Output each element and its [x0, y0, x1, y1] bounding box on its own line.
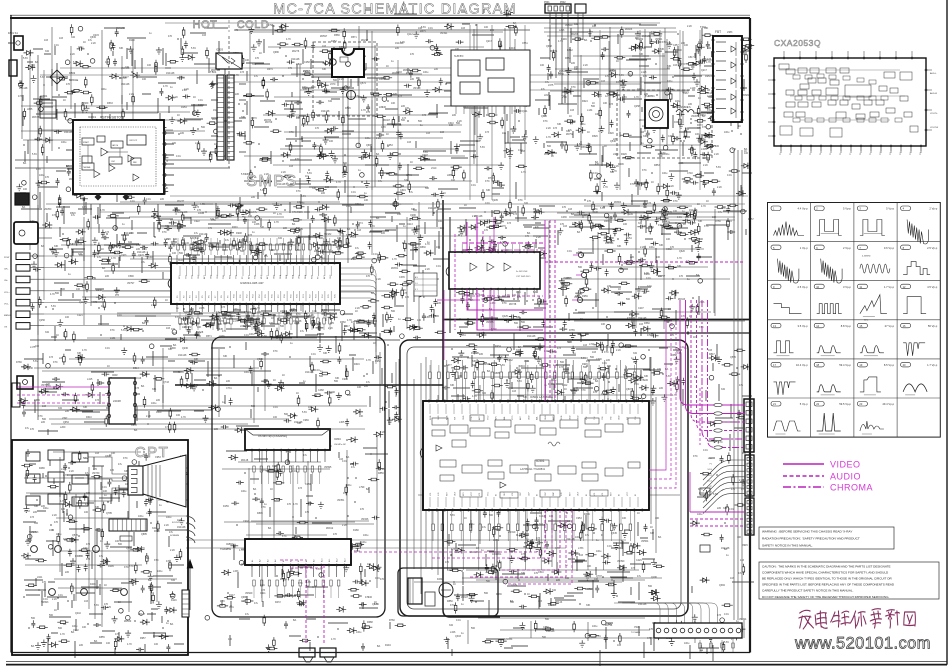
component cluster AV area G [459, 206, 555, 350]
svg-text:P601: P601 [544, 1, 550, 4]
key button switches S01-S07 [16, 253, 30, 260]
svg-text:TDA9859: TDA9859 [220, 547, 232, 551]
svg-text:CPT: CPT [135, 444, 170, 461]
svg-text:FBT: FBT [715, 30, 721, 34]
CPT pin header [109, 519, 147, 531]
svg-text:2.5 Vp-p: 2.5 Vp-p [798, 285, 809, 289]
svg-text:CH-: CH- [4, 280, 8, 282]
bridge diode cross D801-D804 [50, 70, 64, 84]
waveform cell W10 [814, 284, 824, 289]
svg-text:VIN: VIN [610, 416, 612, 420]
svg-text:OSC: OSC [217, 274, 219, 279]
svg-text:KEY: KEY [463, 491, 465, 496]
warning text box [759, 527, 894, 549]
svg-text:DEGAUSSING: DEGAUSSING [672, 106, 688, 109]
right-side connector P903 [745, 498, 754, 535]
svg-text:P401: P401 [634, 626, 640, 629]
svg-text:CIN: CIN [635, 416, 637, 420]
magenta wires to P903 [690, 511, 745, 513]
audio dashed wire y296 below IC201 [462, 295, 543, 297]
svg-text:LF801: LF801 [40, 94, 48, 98]
component cluster left col Q [71, 233, 153, 273]
svg-text:8.8 Vp-p: 8.8 Vp-p [841, 324, 852, 328]
svg-text:CXT 3HP-2KO: CXT 3HP-2KO [516, 276, 531, 278]
svg-text:0 1: 0 1 [415, 289, 418, 291]
waveform cell W3 [857, 206, 867, 211]
svg-text:10.4 Vp-p: 10.4 Vp-p [796, 363, 808, 367]
svg-text:CXA2053Q: CXA2053Q [774, 38, 821, 48]
svg-text:SHD2: SHD2 [707, 492, 713, 494]
resistor groups below micro IC [179, 318, 181, 324]
legend AUDIO [783, 475, 824, 477]
svg-text:VOUT-R: VOUT-R [930, 127, 939, 129]
IC801 STR-S6707 SMPS regulator [73, 120, 164, 194]
svg-text:AUDIO: AUDIO [830, 472, 861, 482]
waveform cell W16 [901, 323, 911, 328]
trunk y385 [175, 384, 443, 386]
main filter capacitor C810 [347, 91, 356, 100]
svg-text:VIN: VIN [586, 416, 588, 420]
ground bus enclosure inner [407, 347, 681, 609]
svg-text:IC01: IC01 [178, 258, 185, 262]
svg-text:KEY: KEY [446, 491, 448, 496]
CPT board outline [12, 440, 188, 655]
svg-text:GND: GND [545, 415, 547, 420]
svg-text:FOCUS: FOCUS [172, 522, 180, 524]
svg-text:P4: P4 [820, 153, 822, 155]
waveform cell W8 [901, 245, 911, 250]
CXA2053Q pin label ticks [780, 148, 782, 151]
wire net C [544, 24, 701, 150]
wire net L [222, 436, 377, 602]
magenta transistors in AV area [578, 252, 583, 257]
heater arrow [187, 560, 193, 568]
magenta bundle into jungle top [545, 400, 550, 401]
CRT socket [128, 466, 143, 495]
video bias transistors row [49, 589, 56, 596]
waveform cell W22 [814, 402, 824, 407]
svg-text:P1: P1 [790, 153, 792, 155]
wire net H [24, 348, 399, 429]
svg-text:TUN: TUN [255, 274, 257, 279]
right-side connector P902 [745, 455, 754, 496]
svg-text:IC804: IC804 [334, 438, 341, 441]
svg-text:RADIATION PRECAUTION', 'SAFETY: RADIATION PRECAUTION', 'SAFETY PRECAUTIO… [762, 537, 860, 541]
magenta feeds from jungle to risers [649, 320, 666, 470]
jungle IC501 main video/chroma/deflection IC [423, 401, 649, 510]
relay dashed section box [313, 42, 377, 116]
waveform cell W15 [857, 323, 867, 328]
wire net EB [38, 202, 419, 338]
magenta vertical bundle x543-557 [544, 220, 546, 400]
svg-text:V.D: V.D [602, 492, 604, 496]
degauss section dashed box [617, 90, 712, 158]
CPT resistor under header [120, 536, 132, 541]
component cluster top tiny P [365, 8, 484, 14]
svg-text:TUN: TUN [223, 274, 225, 279]
svg-text:3 Vp-p: 3 Vp-p [843, 285, 851, 289]
IC802 pin resistor row [253, 580, 255, 586]
svg-text:8.5 Vp-p: 8.5 Vp-p [884, 363, 895, 367]
svg-text:P602: P602 [560, 1, 566, 4]
svg-text:2 Vp-p: 2 Vp-p [843, 246, 851, 250]
svg-text:KEY: KEY [569, 491, 571, 496]
svg-text:P2: P2 [800, 153, 802, 155]
svg-text:KEY: KEY [610, 491, 612, 496]
component cluster left mid H [24, 346, 259, 435]
svg-text:CH+: CH+ [4, 269, 9, 271]
svg-text:OSC: OSC [299, 274, 301, 279]
long rail y23 [165, 22, 660, 24]
svg-text:OSC: OSC [111, 161, 116, 163]
svg-text:VCO: VCO [512, 415, 514, 420]
svg-text:H.D: H.D [561, 492, 563, 496]
svg-text:P5: P5 [830, 153, 832, 155]
resistor row below jungle IC pins [432, 524, 435, 531]
page border top thin line [10, 14, 750, 16]
svg-text:V.D: V.D [512, 492, 514, 496]
CXA2053Q block diagram outline [774, 58, 926, 146]
svg-text:APC: APC [478, 415, 481, 420]
long rail y82 [228, 81, 700, 83]
CXA2053Q internal blocks [779, 64, 789, 69]
svg-text:VDD: VDD [274, 274, 276, 279]
CXA2053Q pins [783, 57, 785, 59]
wire net B [244, 24, 515, 190]
component cluster mid F [369, 202, 452, 339]
HOT/COLD divider dashed line [228, 20, 230, 32]
video solid wire 2 [467, 222, 543, 310]
svg-text:59.5 Vp-p: 59.5 Vp-p [839, 402, 851, 406]
wire net O [468, 618, 744, 644]
verticals top-middle [469, 25, 471, 200]
video drive transistors row [31, 546, 38, 553]
degaussing coil L801 [676, 110, 694, 113]
microcontroller IC01 (GS8334-02B) [171, 263, 340, 304]
left long verticals [37, 55, 39, 420]
component cluster degauss C2 [589, 163, 752, 240]
top center connector P601 [545, 4, 571, 13]
svg-text:SAFETY NOTICE IN THIS MANUAL.: SAFETY NOTICE IN THIS MANUAL. [762, 544, 813, 548]
trunk wire horizontal y320 [443, 319, 750, 321]
component cluster jungle top J [451, 344, 683, 411]
svg-text:5 Vp-p: 5 Vp-p [843, 207, 851, 211]
waveform reference table [768, 203, 941, 438]
svg-text:T401: T401 [700, 25, 706, 29]
svg-text:www.520101.com: www.520101.com [794, 635, 931, 653]
main circuit border bottom [11, 652, 750, 654]
long rail y90 [300, 89, 690, 91]
svg-text:YIN: YIN [594, 416, 596, 420]
page outer border bottom thin [6, 661, 947, 663]
svg-text:WARNING : BEFORE SERVICING THI: WARNING : BEFORE SERVICING THIS CHASSIS … [762, 530, 852, 534]
SMPS transformer T801 [217, 75, 224, 160]
svg-text:IC803: IC803 [216, 48, 223, 52]
svg-text:4.43MHz: 4.43MHz [862, 256, 871, 258]
svg-text:VCC: VCC [627, 491, 629, 496]
svg-text:OVP/OCP: OVP/OCP [129, 140, 138, 142]
waveform cell W2 [814, 206, 824, 211]
svg-text:LATCH: LATCH [112, 144, 119, 147]
FBT flyback transformer T401 [713, 36, 742, 122]
component cluster subboard L [222, 439, 388, 612]
svg-text:YIN: YIN [471, 416, 473, 420]
waveform cell W12 [901, 284, 911, 289]
svg-text:SDA: SDA [285, 274, 288, 279]
svg-text:2.5 Vp-p: 2.5 Vp-p [927, 246, 938, 250]
video buffer IC201 [449, 252, 540, 289]
CRT flare [143, 455, 186, 507]
wire net JM [414, 350, 680, 594]
waveform cell W21 [771, 402, 781, 407]
svg-text:VCO: VCO [487, 415, 489, 420]
svg-text:MC-7CA SCHEMATIC DIAGRAM: MC-7CA SCHEMATIC DIAGRAM [273, 2, 517, 18]
page outer border bottom thick [6, 664, 947, 666]
component cluster fbt east [696, 39, 751, 139]
wire net A [21, 27, 217, 154]
bottom parts near P401 [699, 640, 701, 652]
audio amp IC803 with heatsink [408, 578, 422, 604]
svg-text:SUB B'D: SUB B'D [454, 55, 464, 58]
waveform cell W9 [771, 284, 781, 289]
P902 fan-out wires [703, 460, 745, 480]
svg-text:THR801: THR801 [645, 94, 655, 98]
heater wires CRT [186, 539, 626, 541]
RGB driver blocks row 3 [26, 496, 40, 505]
svg-text:1 0: 1 0 [415, 283, 418, 285]
chroma dashed long wire y243 [462, 242, 543, 244]
waveform cell W4 [901, 206, 911, 211]
svg-text:IC802: IC802 [226, 542, 233, 546]
svg-text:D802: D802 [69, 71, 76, 75]
svg-text:CHROMA: CHROMA [830, 483, 873, 493]
svg-text:V.D: V.D [430, 492, 432, 496]
jungle IC inner pin label ticks [429, 404, 431, 414]
svg-text:APC: APC [552, 415, 555, 420]
svg-text:P8: P8 [860, 153, 862, 155]
svg-text:GND: GND [578, 415, 580, 420]
verticals right of SMPS [599, 30, 601, 190]
svg-text:T801: T801 [210, 70, 217, 74]
audio amplifier sub-board enclosure [398, 568, 498, 616]
IC804 AV switch strip [245, 429, 330, 450]
svg-text:P7: P7 [850, 153, 852, 155]
component cluster smps secondary C [535, 25, 725, 166]
svg-text:IC03: IC03 [112, 373, 118, 377]
waveform cell W5 [771, 245, 781, 250]
svg-text:GND: GND [569, 415, 571, 420]
resistor row above jungle IC pins [429, 372, 432, 379]
svg-text:RGB: RGB [430, 415, 432, 420]
waveform cell W1 [771, 206, 781, 211]
svg-text:V.D: V.D [479, 492, 481, 496]
svg-text:SDA: SDA [304, 274, 307, 279]
waveform cell W23 [857, 402, 867, 407]
svg-text:IC803: IC803 [437, 578, 444, 581]
right-side connector P901 CRT harness [744, 399, 754, 452]
svg-text:3x DIP-2SK: 3x DIP-2SK [516, 271, 528, 273]
page border top thick line [10, 17, 750, 19]
magenta bundle from jungle bottom to audio [500, 510, 560, 570]
svg-text:4.5 Vp-p: 4.5 Vp-p [927, 285, 938, 289]
RGB driver blocks row 2 [26, 474, 40, 483]
wire net K [24, 452, 177, 627]
top small connector right [575, 4, 586, 13]
speaker connector SP1 [299, 648, 315, 657]
svg-text:24C08: 24C08 [113, 399, 121, 403]
svg-text:AFC: AFC [519, 415, 522, 420]
svg-text:1.7 Vp-p: 1.7 Vp-p [884, 285, 895, 289]
sub-board enclosure IC802/IC804 [212, 337, 385, 617]
svg-text:STR-S6707: STR-S6707 [102, 115, 124, 120]
svg-text:VCC: VCC [471, 491, 473, 496]
ground bus enclosure around jungle IC [400, 340, 688, 616]
sound IF sub-board [451, 50, 530, 106]
svg-text:V.D: V.D [594, 492, 596, 496]
wires from top connector [549, 13, 551, 60]
waveform cell W17 [771, 362, 781, 367]
svg-text:MUT: MUT [261, 274, 263, 279]
svg-text:OSD: OSD [463, 415, 465, 420]
relay RL801 [332, 49, 364, 77]
vertical bus lines right margin of circuit [733, 150, 735, 620]
svg-text:LA76810A / TDA8841: LA76810A / TDA8841 [520, 467, 546, 471]
svg-text:5 Vp-p: 5 Vp-p [800, 402, 808, 406]
component cluster center sparse I [246, 342, 392, 425]
svg-text:5 Vp-p: 5 Vp-p [886, 207, 894, 211]
svg-text:H.D: H.D [438, 492, 440, 496]
line filter LF801 [40, 100, 56, 118]
magenta chroma dash-dot mid [462, 249, 543, 251]
main circuit border left [10, 15, 12, 653]
svg-text:CLP: CLP [545, 491, 547, 496]
svg-text:VIDEO: VIDEO [830, 460, 861, 470]
horizontal bus below micro [30, 339, 400, 341]
magenta wires tuner IF area [454, 234, 456, 330]
svg-text:VCC: VCC [487, 491, 489, 496]
waveform cell W11 [857, 284, 867, 289]
waveform cell W7 [857, 245, 867, 250]
main board standoff [17, 376, 33, 389]
signal select table [414, 273, 437, 296]
svg-text:SDA: SDA [291, 274, 294, 279]
svg-text:AUD-L: AUD-L [930, 72, 937, 75]
connector P801 left edge [9, 60, 17, 76]
main circuit border right (thick) [749, 18, 751, 653]
component cluster CPT K [23, 456, 187, 658]
fuse F801 and AC inlet [14, 36, 23, 50]
magenta dashed wires left eeprom area [17, 386, 109, 388]
svg-text:1.7 Vp-p: 1.7 Vp-p [927, 363, 938, 367]
IC802 audio processor strip [245, 539, 351, 565]
svg-text:SHD: SHD [708, 458, 713, 460]
component cluster smps input A [23, 28, 242, 173]
audio dashed wire y262 long to right [545, 261, 744, 263]
micro IC inner pin label ticks [179, 266, 181, 276]
svg-text:SMPS: SMPS [246, 173, 297, 190]
component cluster jungle bottom M [449, 513, 655, 617]
svg-text:COLD: COLD [237, 19, 270, 31]
svg-text:IC501 LA76810A: IC501 LA76810A [530, 395, 553, 399]
waveform cell W14 [814, 323, 824, 328]
svg-text:US MPx 4(IC)CXA2053Q: US MPx 4(IC)CXA2053Q [258, 434, 287, 438]
waveform cell W20 [901, 362, 911, 367]
svg-text:VOUT-L: VOUT-L [930, 113, 939, 115]
svg-text:OK: OK [4, 327, 8, 329]
posistor THR801 [645, 100, 668, 128]
svg-text:C810: C810 [344, 85, 351, 89]
svg-text:VOL-: VOL- [4, 303, 9, 305]
wires micro right side to jungle [340, 268, 376, 334]
component cluster east mid G2 [558, 206, 712, 346]
rails left block [15, 159, 210, 161]
svg-text:OSC: OSC [330, 274, 332, 279]
svg-text:RGB: RGB [446, 415, 448, 420]
svg-text:APC: APC [495, 415, 498, 420]
svg-text:GND: GND [438, 415, 440, 420]
svg-text:27 Vp-p: 27 Vp-p [885, 324, 895, 328]
DIP IC03 (EEPROM) [109, 378, 135, 424]
svg-text:CIN: CIN [602, 416, 604, 420]
RGB wires to socket [88, 457, 128, 474]
svg-text:SPECIFIED IN THE PARTS LIST. B: SPECIFIED IN THE PARTS LIST. BEFORE REPL… [762, 583, 895, 587]
CXA2053Q internal extra small blocks [793, 75, 800, 79]
component cluster smps primary B [233, 24, 527, 212]
IC804 pin resistor row [253, 466, 255, 472]
RGB driver blocks row 1 [26, 452, 40, 461]
svg-text:CLP: CLP [520, 491, 522, 496]
svg-text:DO NOT DEGRADE THE SAFETY OF T: DO NOT DEGRADE THE SAFETY OF THE RECEIVE… [762, 595, 889, 599]
component cluster micro top E [183, 202, 364, 268]
component cluster bottom strip O [448, 623, 738, 666]
svg-text:FBP: FBP [553, 491, 555, 496]
svg-text:F801 S1: F801 S1 [8, 31, 18, 35]
IR receiver module [14, 222, 38, 244]
legend CHROMA [783, 486, 824, 488]
svg-text:2 Vp-p: 2 Vp-p [929, 207, 937, 211]
speaker connector SP2 [320, 648, 336, 657]
svg-text:P0: P0 [780, 153, 782, 155]
svg-text:COIL: COIL [674, 121, 680, 124]
svg-text:BRIDGE: BRIDGE [69, 79, 79, 82]
svg-text:TO MAIN: TO MAIN [631, 631, 640, 634]
svg-text:RGB: RGB [561, 415, 563, 420]
svg-text:HOT: HOT [193, 19, 218, 31]
trunk wire vertical x443 [443, 200, 500, 617]
svg-text:P6: P6 [840, 153, 842, 155]
component cluster bottom mid strip [230, 619, 390, 651]
svg-text:56 Vp-p: 56 Vp-p [928, 324, 938, 328]
svg-text:50Hz: 50Hz [864, 320, 869, 322]
svg-text:CAREFULLY THE PRODUCT SAFETY N: CAREFULLY THE PRODUCT SAFETY NOTICE IN T… [762, 589, 854, 593]
magenta riser from AV to top [493, 217, 495, 252]
caution text box [759, 562, 939, 599]
wire net G2 [549, 206, 745, 329]
waveform cell W6 [814, 245, 824, 250]
svg-text:AUD-R: AUD-R [930, 92, 937, 95]
waveform cell W18 [814, 362, 824, 367]
CPT feed wires from right [158, 467, 188, 469]
component cluster micro mid band [49, 243, 177, 341]
svg-text:OSC: OSC [198, 274, 200, 279]
jungle top pin risers [430, 360, 432, 401]
svg-text:GND: GND [619, 415, 621, 420]
svg-text:GND: GND [528, 415, 530, 420]
svg-text:VOL+: VOL+ [4, 292, 10, 294]
capacitor C805 [330, 59, 336, 65]
magenta vertical right area x700 [699, 388, 701, 445]
svg-text:BE REPLACED ONLY WHICH TYPES I: BE REPLACED ONLY WHICH TYPES IDENTICAL T… [762, 577, 892, 581]
